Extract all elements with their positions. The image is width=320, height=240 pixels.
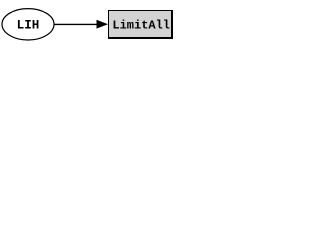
arrowhead	[97, 20, 109, 29]
svg-text:LIH: LIH	[17, 18, 40, 32]
svg-text:LimitAll: LimitAll	[112, 18, 170, 32]
box border top	[108, 10, 173, 11]
node LIH (ellipse)	[2, 9, 54, 40]
box border bottom	[108, 37, 173, 39]
background	[0, 0, 176, 48]
wire edge LIH->LimitAll	[54, 23, 98, 25]
box border left	[108, 10, 109, 39]
node LimitAll (box) fill	[108, 10, 173, 39]
box border right	[171, 10, 173, 39]
